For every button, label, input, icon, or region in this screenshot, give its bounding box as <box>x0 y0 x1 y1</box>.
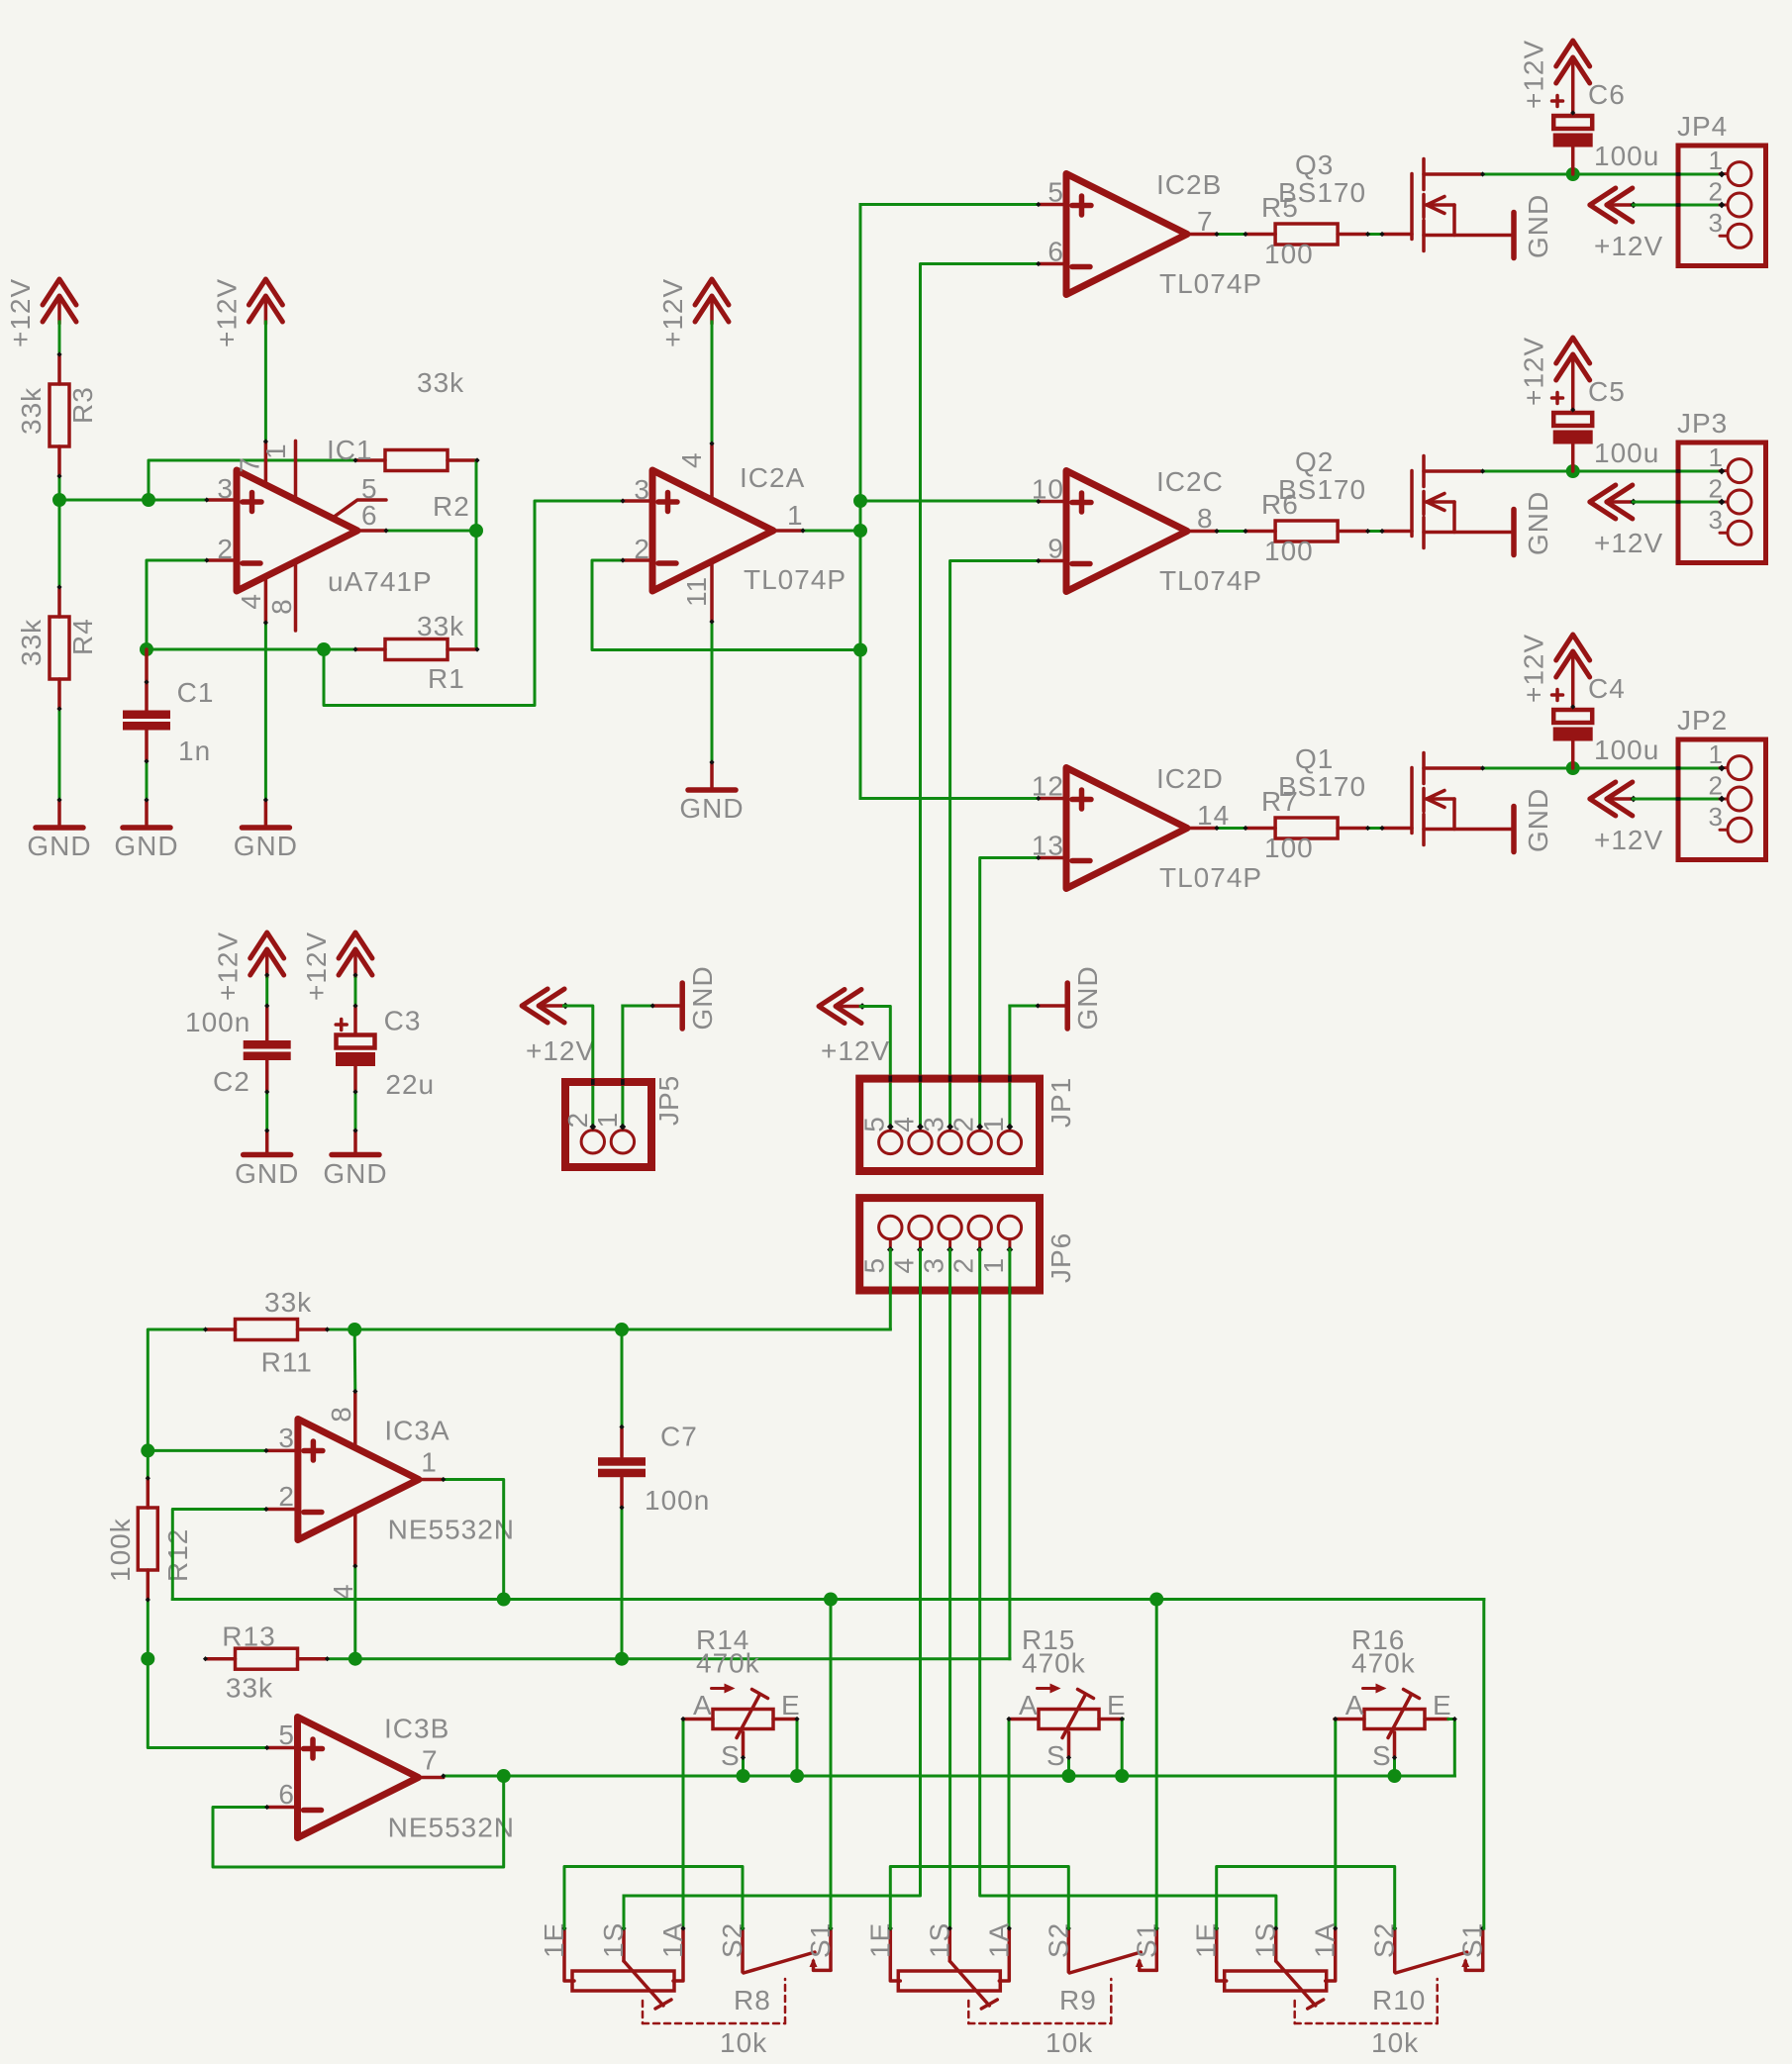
wire R11 right / V+ rail <box>328 1328 891 1331</box>
svg-text:100u: 100u <box>1594 141 1659 171</box>
pin 9 stub IC2C <box>1039 559 1066 563</box>
pin 1 JP4 <box>1728 162 1751 186</box>
wire bus to IC2C pin10 <box>860 500 1039 503</box>
capacitor C4 100u polarized <box>1553 710 1592 723</box>
svg-text:R4: R4 <box>67 618 98 655</box>
node C7 bottom on H2 <box>615 1652 629 1666</box>
svg-text:33k: 33k <box>417 367 464 398</box>
resistor R13 33k <box>206 1657 236 1661</box>
supply +12V arrow (JP3 pin2) <box>1590 485 1616 519</box>
node divider junction <box>52 493 66 507</box>
svg-text:2: 2 <box>948 1116 979 1132</box>
capacitor C3 22u polarized <box>353 1006 357 1034</box>
svg-text:1: 1 <box>260 442 291 459</box>
wire R8 1S to JP6 pin4 net <box>623 1896 626 1928</box>
wire output down to R1 <box>475 531 478 649</box>
potentiometer R8 10k with switch <box>564 1928 574 1981</box>
svg-text:22u: 22u <box>385 1069 435 1100</box>
pin 11 IC2A V- <box>710 561 714 622</box>
svg-text:3: 3 <box>919 1116 949 1132</box>
svg-text:6: 6 <box>278 1779 295 1810</box>
wire R10 1E-S2 loop <box>1217 1867 1395 1929</box>
svg-text:1: 1 <box>978 1257 1009 1274</box>
svg-text:R10: R10 <box>1372 1985 1426 2015</box>
pin 6 stub IC2B <box>1039 262 1066 266</box>
ground GND (R4) <box>57 800 61 826</box>
svg-text:NE5532N: NE5532N <box>388 1813 515 1843</box>
resistor R12 100k <box>147 1478 150 1508</box>
svg-text:IC2A: IC2A <box>740 462 805 493</box>
pin connection marks JP2 <box>1676 766 1681 770</box>
svg-text:R11: R11 <box>261 1347 313 1378</box>
supply +12V arrow (IC1 pin7) <box>249 279 282 305</box>
svg-text:+12V: +12V <box>1519 337 1549 406</box>
ground GND (IC2A) <box>710 762 714 788</box>
node IC3A pin4 on H2 <box>348 1652 362 1666</box>
wire R15 S to H3 <box>1067 1758 1070 1777</box>
svg-text:GND: GND <box>234 831 298 861</box>
wire IC2B out to R5 <box>1217 233 1245 236</box>
wire R3 to R4 <box>58 476 61 587</box>
svg-text:BS170: BS170 <box>1278 474 1366 505</box>
node R14 S <box>737 1769 750 1783</box>
pin 3 stub IC3A <box>266 1449 298 1453</box>
svg-text:4: 4 <box>889 1257 920 1274</box>
pin 2 JP1 <box>978 1127 981 1130</box>
wire R10 S1 up to H1 <box>1482 1600 1485 1929</box>
node drain/C4 <box>1566 761 1580 775</box>
wire GND to JP5 pin1 <box>623 1005 652 1008</box>
supply +12V arrow (JP1) <box>819 990 845 1024</box>
wire R16 S to H3 <box>1393 1758 1396 1777</box>
supply +12V arrow (JP5) <box>522 989 548 1023</box>
svg-text:GND: GND <box>1523 491 1553 555</box>
pin 12 stub IC2D <box>1039 797 1066 801</box>
wire R4 to GND <box>58 709 61 800</box>
pin 4 IC3A V- <box>353 1511 357 1566</box>
node H1/out <box>497 1593 511 1607</box>
svg-text:3: 3 <box>1709 505 1724 535</box>
ground GND (IC1) <box>264 800 268 826</box>
wire +12V to JP2 pin2 <box>1634 798 1722 801</box>
node C7 top <box>615 1323 629 1336</box>
svg-text:JP3: JP3 <box>1677 408 1728 439</box>
wire IC2D out to R7 <box>1217 827 1245 830</box>
pin 3 JP4 <box>1728 224 1751 247</box>
resistor R3 33k <box>57 354 61 384</box>
ground GND (JP1) <box>1038 1004 1065 1008</box>
svg-text:9: 9 <box>1047 534 1064 564</box>
ground GND (C2) <box>244 1152 291 1158</box>
potentiometer R9 10k with switch <box>890 1928 900 1981</box>
node R9 S1 on H1 <box>1149 1593 1163 1607</box>
pin 1 JP3 <box>1728 459 1751 483</box>
svg-text:4: 4 <box>889 1116 920 1132</box>
pin 5 JP1 <box>889 1127 892 1130</box>
svg-text:TL074P: TL074P <box>744 564 846 595</box>
supply +12V arrow (C3) <box>339 933 372 958</box>
wire JP1-4 net to IC2B pin6 <box>921 264 1039 1128</box>
pin 3 JP2 <box>1728 818 1751 841</box>
svg-text:GND: GND <box>323 1158 387 1189</box>
wire IC3A feedback line H1 <box>172 1598 1484 1601</box>
svg-text:E: E <box>781 1690 801 1720</box>
wire Q2 drain to JP3 pin1 <box>1483 470 1722 473</box>
pin 3 stub IC2A <box>623 499 652 503</box>
svg-text:R12: R12 <box>162 1528 193 1582</box>
wire pin2 to H1 <box>172 1510 266 1600</box>
op-amp IC2A TL074P <box>652 470 773 591</box>
pin 5 stub IC3B <box>267 1746 298 1750</box>
node R15 S <box>1062 1769 1076 1783</box>
svg-text:uA741P: uA741P <box>328 566 433 597</box>
svg-text:Q3: Q3 <box>1295 149 1334 180</box>
connector JP6 <box>859 1198 1040 1290</box>
wire output bus vertical <box>859 205 862 799</box>
svg-text:R3: R3 <box>67 386 98 424</box>
wire IC2A feedback pin2 <box>592 560 860 650</box>
wire C1 to GND <box>146 761 149 800</box>
wire R15 E to H3 <box>1121 1720 1125 1777</box>
wire IC2A out to bus <box>803 530 860 533</box>
pin 2 JP3 <box>1728 490 1751 514</box>
supply +12V arrow (JP4 pin2) <box>1590 188 1616 222</box>
capacitor C1 1n <box>145 649 149 711</box>
wire R16 A down to pot 1A <box>1334 1720 1337 1929</box>
svg-text:33k: 33k <box>226 1672 273 1703</box>
svg-text:5: 5 <box>1047 177 1064 208</box>
wire R6 to Q2 gate <box>1368 530 1382 533</box>
node C1 top <box>140 642 153 656</box>
svg-text:1: 1 <box>592 1112 623 1129</box>
pin 13 stub IC2D <box>1039 856 1066 860</box>
pin 4 IC2A V+ <box>710 443 714 500</box>
svg-text:33k: 33k <box>16 619 47 666</box>
svg-text:A: A <box>693 1690 713 1720</box>
supply +12V arrow (R3) <box>43 279 76 305</box>
wire bus to IC2B pin5 <box>860 203 1039 206</box>
svg-text:C6: C6 <box>1588 79 1626 110</box>
op-amp IC3A NE5532N <box>298 1420 419 1540</box>
svg-text:+12V: +12V <box>1594 231 1663 261</box>
svg-text:12: 12 <box>1032 771 1064 802</box>
pin 1 JP5 <box>621 1127 624 1130</box>
svg-text:3: 3 <box>1709 802 1724 832</box>
svg-text:+12V: +12V <box>1594 528 1663 558</box>
svg-text:3: 3 <box>1709 208 1724 238</box>
pin 7 output stub IC2B <box>1187 233 1217 237</box>
pin 6 IC1 output stub <box>357 529 386 533</box>
pin 3 JP6 <box>948 1239 951 1250</box>
svg-text:GND: GND <box>235 1158 299 1189</box>
svg-text:8: 8 <box>266 598 297 615</box>
svg-text:3: 3 <box>634 474 650 505</box>
svg-text:E: E <box>1107 1690 1127 1720</box>
node R8 S1 on H1 <box>824 1593 838 1607</box>
svg-text:A: A <box>1019 1690 1039 1720</box>
pin 1 JP2 <box>1728 756 1751 780</box>
resistor R6 100 <box>1245 530 1275 534</box>
wire JP1-2 net to IC2D pin13 <box>980 858 1039 1128</box>
pin 4 JP6 <box>919 1239 922 1250</box>
supply +12V arrow (IC2A pin4) <box>695 279 729 305</box>
svg-text:+12V: +12V <box>213 932 244 1001</box>
supply +12V arrow (C5) <box>1556 338 1590 363</box>
resistor R4 33k <box>57 587 61 617</box>
wire +12V to C3 <box>354 975 357 1006</box>
pin connection marks JP4 <box>1676 172 1681 176</box>
supply +12V arrow (JP2 pin2) <box>1590 782 1616 816</box>
svg-text:100: 100 <box>1264 536 1314 566</box>
node drain/C6 <box>1566 167 1580 181</box>
svg-text:+12V: +12V <box>211 278 242 347</box>
svg-text:JP6: JP6 <box>1045 1232 1076 1283</box>
pin 3 JP3 <box>1728 521 1751 544</box>
svg-text:R2: R2 <box>433 491 470 522</box>
svg-text:33k: 33k <box>16 387 47 435</box>
wire pin4 to H2 <box>353 1566 356 1659</box>
svg-text:1: 1 <box>1709 146 1724 175</box>
svg-text:TL074P: TL074P <box>1159 565 1262 596</box>
svg-text:E: E <box>1433 1690 1452 1720</box>
svg-text:100k: 100k <box>105 1518 136 1582</box>
wire JP6 pin4 to R8 wiper net <box>624 1249 921 1896</box>
pin 2 JP6 <box>978 1239 981 1250</box>
svg-text:S: S <box>1046 1740 1066 1771</box>
pin 3 stub IC1 <box>207 498 237 502</box>
svg-text:100: 100 <box>1264 833 1314 863</box>
svg-text:2: 2 <box>562 1112 593 1129</box>
capacitor C6 100u polarized <box>1553 116 1592 129</box>
svg-text:GND: GND <box>1523 788 1553 852</box>
svg-text:+12V: +12V <box>821 1035 890 1066</box>
svg-text:3: 3 <box>919 1257 949 1274</box>
pin 1 IC2A output stub <box>773 529 803 533</box>
svg-text:IC2D: IC2D <box>1156 763 1224 794</box>
svg-text:+12V: +12V <box>1594 825 1663 855</box>
connector JP5 <box>565 1082 651 1167</box>
svg-text:R1: R1 <box>428 663 465 694</box>
pin 1 JP6 <box>1008 1239 1011 1250</box>
wire R12 to R13 node <box>147 1600 149 1659</box>
wire Q1 drain to JP2 pin1 <box>1483 767 1722 770</box>
op-amp IC2C TL074P <box>1066 471 1187 592</box>
resistor R7 100 <box>1245 827 1275 831</box>
wire +12V to IC2A pin4 <box>711 322 714 443</box>
svg-text:BS170: BS170 <box>1278 771 1366 802</box>
wire R15 A down to pot 1A <box>1008 1720 1011 1929</box>
svg-text:GND: GND <box>114 831 178 861</box>
wire GND to JP1 pin1 <box>1010 1005 1038 1008</box>
svg-text:1: 1 <box>978 1116 1009 1132</box>
ground GND (C3) <box>332 1152 379 1158</box>
svg-text:S: S <box>1372 1740 1392 1771</box>
svg-text:IC3B: IC3B <box>384 1714 449 1744</box>
svg-text:R13: R13 <box>222 1622 275 1652</box>
svg-text:10: 10 <box>1032 474 1064 505</box>
pin 8 IC1 NC <box>294 561 298 632</box>
wire R9 1E-S2 loop <box>890 1867 1068 1929</box>
svg-text:C5: C5 <box>1588 376 1626 407</box>
svg-text:470k: 470k <box>696 1648 760 1679</box>
wire IC1 output to node <box>386 530 476 533</box>
wire R13 right (GND sense line H2) <box>328 1657 1010 1660</box>
wire R14 S to H3 <box>742 1758 745 1777</box>
svg-text:2: 2 <box>948 1257 979 1274</box>
wire +12V to C2 <box>265 975 268 1006</box>
svg-text:+12V: +12V <box>5 278 36 347</box>
pin 1 IC3A output stub <box>417 1478 444 1482</box>
wire R14 A down to pot 1A <box>682 1720 685 1929</box>
op-amp IC2D TL074P <box>1066 768 1187 889</box>
node trimmer E <box>1115 1769 1129 1783</box>
svg-text:+12V: +12V <box>1519 634 1549 703</box>
svg-text:GND: GND <box>687 965 718 1030</box>
pin 5 stub IC2B <box>1039 203 1066 207</box>
node bus-out <box>853 524 867 538</box>
pin 2 stub IC1 <box>207 558 237 562</box>
wire IC2A pin11 to GND <box>711 622 714 762</box>
connector JP2 <box>1678 739 1766 860</box>
svg-text:A: A <box>1345 1690 1365 1720</box>
op-amp IC3B NE5532N <box>298 1718 419 1838</box>
wire IC1 pin4 to GND <box>264 623 267 800</box>
node R13 left <box>141 1652 154 1666</box>
svg-text:C1: C1 <box>177 677 215 708</box>
ground GND (Q3 source) <box>1511 213 1517 258</box>
svg-text:IC1: IC1 <box>327 435 373 465</box>
potentiometer R10 10k with switch <box>1217 1928 1227 1981</box>
svg-text:10k: 10k <box>1371 2027 1419 2058</box>
svg-text:JP1: JP1 <box>1045 1077 1076 1128</box>
svg-text:1: 1 <box>421 1447 438 1478</box>
capacitor C2 100n <box>265 1006 269 1040</box>
resistor R5 100 <box>1245 233 1275 237</box>
wire +12V to JP4 pin2 <box>1634 204 1722 207</box>
svg-text:IC3A: IC3A <box>384 1416 449 1446</box>
wire integrator node to IC2A pin3 <box>324 501 623 706</box>
svg-text:1: 1 <box>1709 739 1724 769</box>
svg-text:BS170: BS170 <box>1278 177 1366 208</box>
svg-text:IC2C: IC2C <box>1156 466 1224 497</box>
svg-text:JP5: JP5 <box>653 1075 684 1126</box>
wire IC3A out to feedback <box>444 1480 504 1600</box>
svg-text:100n: 100n <box>645 1485 710 1516</box>
wire JP6 pin2 to R10 wiper net <box>980 1249 1276 1928</box>
node drain/C5 <box>1566 464 1580 478</box>
node R16 S <box>1388 1769 1402 1783</box>
svg-text:TL074P: TL074P <box>1159 268 1262 299</box>
svg-text:R8: R8 <box>734 1985 771 2015</box>
pin 2 stub IC3A <box>266 1508 298 1512</box>
resistor R2 33k <box>355 458 385 462</box>
node trimmer E <box>790 1769 804 1783</box>
pin 14 output stub IC2D <box>1187 827 1217 831</box>
pin 4 JP1 <box>919 1127 922 1130</box>
wire divider to IC1 pin3 <box>59 499 207 502</box>
svg-text:6: 6 <box>361 500 378 531</box>
pin 5 JP6 <box>889 1239 892 1250</box>
resistor R11 33k <box>206 1327 236 1331</box>
resistor R1 33k <box>355 647 385 651</box>
wire IC2C out to R6 <box>1217 530 1245 533</box>
pin 2 JP4 <box>1728 193 1751 217</box>
svg-text:8: 8 <box>1197 503 1214 534</box>
transistor Q3 BS170 <box>1382 233 1412 237</box>
pin 8 output stub IC2C <box>1187 530 1217 534</box>
supply +12V arrow (C4) <box>1556 635 1590 660</box>
node R11/pin8 <box>348 1323 361 1336</box>
trimmer R16 470k <box>1335 1718 1364 1721</box>
wire R11 left to IC3A pin3 node <box>148 1329 205 1478</box>
svg-text:1: 1 <box>1709 442 1724 472</box>
svg-text:4: 4 <box>236 593 266 610</box>
svg-text:5: 5 <box>858 1257 889 1274</box>
wire +12V to JP3 pin2 <box>1634 501 1722 504</box>
wire node to IC3A pin3 <box>148 1449 266 1452</box>
svg-text:Q2: Q2 <box>1295 446 1334 477</box>
svg-text:4: 4 <box>676 451 707 468</box>
svg-text:470k: 470k <box>1022 1648 1086 1679</box>
node IC3A pin3 <box>141 1443 154 1457</box>
wire R9 S1 up to H1 <box>1155 1600 1158 1929</box>
svg-text:2: 2 <box>217 534 234 564</box>
svg-text:GND: GND <box>1523 194 1553 258</box>
svg-text:33k: 33k <box>264 1287 312 1318</box>
wire R8 S1 up to H1 <box>830 1600 833 1929</box>
connector JP1 <box>859 1079 1040 1171</box>
svg-text:GND: GND <box>27 831 91 861</box>
wire pin2 to C1 node <box>147 560 207 649</box>
svg-text:NE5532N: NE5532N <box>388 1515 515 1545</box>
wire JP6 pin5 to V+ rail <box>354 1249 890 1329</box>
svg-text:33k: 33k <box>417 611 464 641</box>
svg-text:1n: 1n <box>178 736 211 766</box>
wire JP6 pin1 to R13 node <box>1008 1249 1011 1658</box>
connector JP3 <box>1678 442 1766 563</box>
svg-text:3: 3 <box>217 473 234 504</box>
svg-text:7: 7 <box>422 1745 439 1776</box>
node R1 left <box>317 642 331 656</box>
capacitor C7 100n <box>620 1426 624 1456</box>
ground GND (JP5) <box>652 1004 680 1008</box>
wire +12V to IC1 pin7 <box>264 322 267 442</box>
svg-text:13: 13 <box>1032 831 1064 861</box>
svg-text:3: 3 <box>278 1423 295 1453</box>
pin 2 JP5 <box>591 1127 594 1130</box>
wire JP6 pin3 to R9 wiper <box>948 1249 951 1928</box>
op-amp IC1 uA741P <box>237 470 357 591</box>
svg-text:R9: R9 <box>1059 1985 1097 2015</box>
capacitor C5 100u polarized <box>1553 413 1592 426</box>
svg-text:2: 2 <box>634 534 650 564</box>
pin 1 JP1 <box>1008 1127 1011 1130</box>
pin 7 IC1 V+ <box>264 442 268 485</box>
wire R14 E to H3 <box>796 1720 799 1777</box>
svg-text:C3: C3 <box>384 1006 422 1036</box>
wire R5 to Q3 gate <box>1368 233 1382 236</box>
node IC1 output <box>469 524 483 538</box>
wire +12V to R3 <box>58 322 61 354</box>
trimmer R14 470k <box>683 1718 713 1721</box>
node bus-fb <box>853 643 867 657</box>
svg-text:470k: 470k <box>1351 1648 1416 1679</box>
svg-text:7: 7 <box>1197 206 1214 237</box>
svg-text:+12V: +12V <box>301 932 332 1001</box>
pin 10 stub IC2C <box>1039 500 1066 504</box>
svg-text:2: 2 <box>278 1481 295 1512</box>
svg-text:5: 5 <box>858 1116 889 1132</box>
